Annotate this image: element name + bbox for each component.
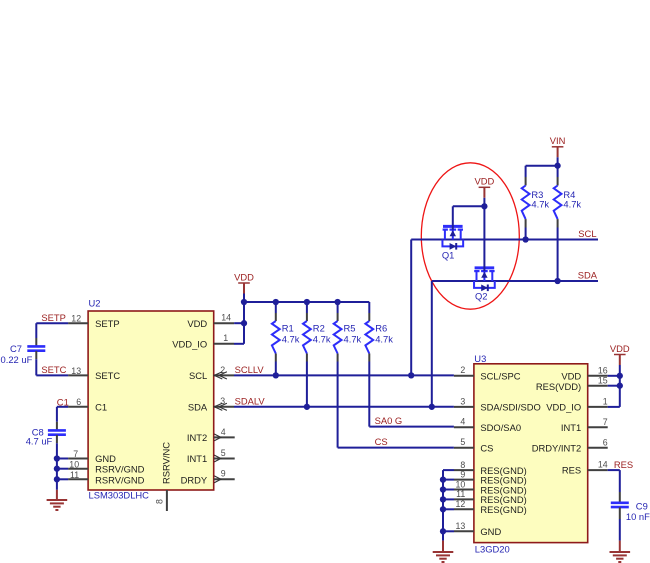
wire R4 bottom to SDA (557, 228, 559, 282)
svg-text:GND: GND (95, 453, 116, 464)
svg-text:SCL: SCL (189, 370, 207, 381)
svg-text:LSM303DLHC: LSM303DLHC (89, 490, 150, 501)
svg-text:11: 11 (70, 470, 79, 480)
IC U3 L3GD20 body (474, 364, 588, 543)
svg-text:SDA: SDA (188, 401, 208, 412)
U2 pin 13 stub (68, 374, 88, 376)
junction VDD stem to bus (241, 299, 247, 305)
svg-text:SCLLV: SCLLV (235, 364, 265, 375)
capacitor C9 (611, 501, 629, 504)
svg-text:5: 5 (221, 448, 226, 458)
svg-text:9: 9 (460, 469, 465, 479)
U3 pin 16 stub (588, 375, 608, 377)
U3 pin 6 stub (588, 447, 608, 449)
resistor R3 bottom lead (525, 219, 527, 227)
wire VDD to U2 pin 14 (234, 322, 244, 324)
wire VDD stem down to pin14 (243, 302, 245, 323)
transistor Q2 (475, 266, 495, 269)
U2 pin 2 bidirectional arrow (214, 372, 222, 379)
junction pin11 (54, 476, 60, 482)
U2 pin 2 stub (214, 374, 234, 376)
U2 pin 7 stub (68, 458, 88, 460)
svg-text:CS: CS (375, 436, 388, 447)
svg-text:10: 10 (456, 479, 466, 489)
svg-text:RSRV/NC: RSRV/NC (161, 442, 172, 484)
wire GND pin 7 connection (57, 458, 68, 460)
junction R5 top on bus (334, 299, 340, 305)
svg-text:5: 5 (460, 437, 465, 447)
svg-text:VDD_IO: VDD_IO (172, 338, 207, 349)
svg-text:RSRV/GND: RSRV/GND (95, 464, 145, 475)
svg-text:SCL/SPC: SCL/SPC (480, 370, 520, 381)
svg-text:SETP: SETP (41, 312, 66, 323)
junction R4 SDA (554, 278, 560, 284)
svg-text:SETC: SETC (95, 370, 120, 381)
wire C1 net (57, 406, 68, 408)
svg-text:VDD: VDD (234, 271, 254, 282)
wire SDALV net (234, 406, 454, 408)
svg-text:R1: R1 (282, 323, 294, 334)
svg-text:SA0 G: SA0 G (375, 415, 403, 426)
svg-text:4.7 uF: 4.7 uF (26, 436, 53, 447)
wire VDD down pin15 (619, 376, 621, 386)
svg-text:4.7k: 4.7k (375, 333, 393, 344)
wire RES(GND) stub connection (443, 530, 454, 532)
wire RSRV pin 11 connection (57, 478, 68, 480)
resistor R5 top lead (337, 302, 339, 313)
resistor R6 top lead (368, 302, 370, 313)
svg-text:DRDY/INT2: DRDY/INT2 (532, 442, 581, 453)
transistor Q1 (443, 225, 463, 228)
wire RES(GND) stub connection (443, 498, 454, 500)
resistor R2 (303, 321, 311, 354)
U3 pin 5 stub (454, 447, 474, 449)
svg-text:RES(GND): RES(GND) (480, 504, 526, 515)
wire C8 to GND pins (56, 443, 58, 490)
svg-text:SCL: SCL (578, 228, 596, 239)
junction VIN to R3 R4 (554, 163, 560, 169)
junction VDD pin15 (617, 383, 623, 389)
svg-text:C1: C1 (95, 401, 107, 412)
junction VDD gates (481, 203, 487, 209)
wire VDD down to pin1 elbow (619, 386, 621, 407)
wire VDD to Q2 gate (483, 206, 485, 271)
svg-text:8: 8 (155, 499, 165, 504)
svg-text:SETP: SETP (95, 318, 120, 329)
svg-text:C7: C7 (10, 343, 22, 354)
svg-text:R6: R6 (375, 323, 387, 334)
U2 pin 5 output arrow (214, 455, 221, 462)
wire RES(GND) stub connection (443, 469, 454, 471)
ground symbol under RES bus (433, 551, 454, 553)
svg-text:14: 14 (598, 460, 608, 470)
U2 pin 5 stub (214, 458, 235, 460)
svg-text:4.7k: 4.7k (282, 333, 300, 344)
wire RES(GND) stub connection (443, 508, 454, 510)
ground stem under RES bus (442, 541, 444, 552)
wire RSRV pin 10 connection (57, 468, 68, 470)
svg-text:6: 6 (603, 437, 608, 447)
svg-text:SDO/SA0: SDO/SA0 (480, 422, 521, 433)
svg-text:10 nF: 10 nF (626, 511, 650, 522)
svg-text:SDA: SDA (578, 270, 598, 281)
svg-text:U3: U3 (474, 353, 486, 364)
U2 pin 9 output arrow (214, 476, 221, 483)
svg-text:DRDY: DRDY (181, 475, 208, 486)
svg-text:4.7k: 4.7k (531, 199, 549, 210)
junction RES(GND) bus (440, 486, 446, 492)
ground stem under U2 (56, 490, 58, 500)
svg-text:16: 16 (598, 365, 608, 375)
wire RES(GND) stub connection (443, 479, 454, 481)
svg-text:INT1: INT1 (561, 422, 581, 433)
resistor R1 top lead (275, 302, 277, 313)
resistor R6 bottom lead (368, 354, 370, 362)
resistor R3 (522, 186, 530, 220)
U3 pin 2 stub (454, 375, 474, 377)
wire RES(GND) stub connection (443, 489, 454, 491)
junction RES(GND) bus (440, 528, 446, 534)
svg-text:13: 13 (456, 521, 466, 531)
U3 pin 7 stub (588, 426, 608, 428)
U2 pin 8 stub bottom (166, 490, 168, 511)
U2 pin 4 stub (214, 436, 235, 438)
svg-text:8: 8 (460, 460, 465, 470)
wire R5 bottom to CS elbow (337, 362, 339, 448)
wire SETC net (35, 359, 37, 375)
svg-text:INT1: INT1 (187, 453, 207, 464)
svg-text:R5: R5 (344, 323, 356, 334)
junction RES(GND) bus (440, 506, 446, 512)
junction R3 SCL (522, 236, 528, 242)
U3 pin 8 stub (454, 469, 474, 471)
U2 pin 14 stub (214, 322, 234, 324)
ground symbol under U2 (47, 499, 68, 501)
resistor R4 bottom lead (557, 219, 559, 227)
red ellipse highlight around level shifters Q1 Q2 (421, 163, 519, 309)
capacitor C8 bottom lead (56, 435, 58, 443)
U3 pin 13 stub (454, 530, 474, 532)
U3 pin 12 stub (454, 508, 474, 510)
U3 pin 10 stub (454, 489, 474, 491)
junction R1 SCLLV (273, 372, 279, 378)
junction RES(GND) bus (440, 496, 446, 502)
ground symbol under C9 (610, 551, 631, 553)
U3 pin 11 stub (454, 498, 474, 500)
junction RES(GND) bus (440, 476, 446, 482)
U3 pin 15 stub (588, 385, 608, 387)
wire Q1 source down to SCLLV (410, 240, 412, 376)
svg-text:R2: R2 (313, 323, 325, 334)
wire VDD to U3 pin1 (608, 406, 620, 408)
wire VDD to U3 pin15 (608, 385, 620, 387)
svg-text:RES(VDD): RES(VDD) (536, 381, 581, 392)
svg-text:13: 13 (71, 366, 81, 376)
svg-text:4: 4 (221, 427, 226, 437)
U3 pin 1 stub (588, 406, 608, 408)
capacitor C9 bottom lead (619, 507, 621, 519)
svg-text:11: 11 (456, 489, 465, 499)
svg-text:VDD: VDD (610, 343, 630, 354)
capacitor C9 top lead (619, 492, 621, 503)
svg-text:VDD: VDD (561, 370, 581, 381)
svg-text:4.7k: 4.7k (313, 333, 331, 344)
wire VDD to Q1 gate (453, 205, 485, 207)
resistor R6 (365, 321, 373, 354)
svg-text:SETC: SETC (41, 364, 66, 375)
U3 pin 14 stub (588, 469, 608, 471)
wire RES(GND) bus vertical (442, 470, 444, 540)
junction pin10 (54, 466, 60, 472)
U3 pin 3 stub (454, 406, 474, 408)
wire SCLLV net (234, 374, 454, 376)
svg-text:L3GD20: L3GD20 (475, 544, 510, 555)
svg-text:VDD: VDD (187, 318, 207, 329)
svg-text:VDD_IO: VDD_IO (546, 402, 581, 413)
svg-text:7: 7 (603, 417, 608, 427)
U2 pin 9 stub (214, 478, 235, 480)
wire R3 bottom to SCL (525, 228, 527, 240)
svg-text:6: 6 (76, 397, 81, 407)
svg-text:VDD: VDD (475, 176, 495, 187)
wire RES pin14 to C9 (608, 469, 620, 471)
wire SA0_G horizontal to U3 pin 4 (369, 426, 454, 428)
svg-text:RES: RES (614, 459, 633, 470)
capacitor C8 (48, 429, 66, 432)
wire CS horizontal to U3 pin 5 (338, 447, 454, 449)
junction R2 top on bus (304, 299, 310, 305)
resistor R3 top lead (525, 177, 527, 186)
resistor R5 bottom lead (337, 354, 339, 362)
capacitor C7 top lead (35, 338, 37, 346)
wire SCL horizontal through Q1 (411, 239, 598, 241)
wire R4 top lead from VIN (557, 166, 559, 177)
U2 pin 4 output arrow (214, 434, 221, 441)
U2 pin 10 stub (68, 468, 88, 470)
resistor R2 top lead (306, 302, 308, 313)
svg-text:INT2: INT2 (187, 432, 207, 443)
resistor R2 bottom lead (306, 354, 308, 362)
U2 pin 6 stub (68, 406, 88, 408)
junction VDD pin14 tee (241, 320, 247, 326)
junction Q2 source SDALV (429, 404, 435, 410)
svg-text:GND: GND (480, 526, 501, 537)
junction Q1 source SCLLV (408, 372, 414, 378)
U3 pin 4 stub (454, 426, 474, 428)
wire VDD bus over pullup resistors (244, 301, 369, 303)
svg-text:1: 1 (603, 397, 608, 407)
svg-text:14: 14 (221, 313, 231, 323)
U2 pin 11 stub (68, 478, 88, 480)
svg-text:4.7k: 4.7k (563, 199, 581, 210)
resistor R4 (554, 186, 562, 220)
svg-text:SDA/SDI/SDO: SDA/SDI/SDO (480, 402, 540, 413)
wire SETP net (36, 322, 68, 324)
svg-text:RSRV/GND: RSRV/GND (95, 475, 145, 486)
svg-text:12: 12 (71, 314, 81, 324)
svg-text:4.7k: 4.7k (344, 333, 362, 344)
svg-text:C9: C9 (636, 500, 648, 511)
svg-text:Q1: Q1 (442, 250, 455, 261)
junction GND pin7 (54, 455, 60, 461)
svg-text:SDALV: SDALV (235, 396, 266, 407)
U2 pin 1 stub (214, 343, 234, 345)
U2 pin 12 stub (68, 322, 88, 324)
svg-text:9: 9 (221, 469, 226, 479)
U2 pin 3 bidirectional arrow (214, 403, 222, 410)
svg-text:VIN: VIN (550, 135, 566, 146)
svg-text:Q2: Q2 (475, 290, 488, 301)
junction R1 top on bus (273, 299, 279, 305)
wire C9 to ground (619, 519, 621, 541)
svg-text:0.22 uF: 0.22 uF (1, 354, 33, 365)
U2 pin 3 stub (214, 406, 234, 408)
capacitor C7 bottom lead (35, 351, 37, 359)
wire Q2 source down to SDALV (431, 281, 433, 407)
svg-text:2: 2 (460, 365, 465, 375)
svg-text:U2: U2 (89, 298, 101, 309)
wire R1 bottom to SCLLV (275, 362, 277, 376)
svg-text:10: 10 (69, 460, 79, 470)
ground stem under C9 (619, 541, 621, 552)
resistor R5 (334, 321, 342, 354)
capacitor C7 (27, 345, 45, 348)
wire R6 bottom to SA0_G elbow (368, 362, 370, 427)
resistor R1 (272, 321, 280, 354)
IC U2 LSM303DLHC body (88, 311, 214, 490)
svg-text:CS: CS (480, 442, 493, 453)
junction VDD pin16 (617, 373, 623, 379)
capacitor C8 top lead (56, 422, 58, 431)
junction R2 SDALV (304, 404, 310, 410)
svg-text:1: 1 (223, 333, 228, 343)
wire VDD_IO to U2 pin 1 (234, 343, 244, 345)
wire VDD to U3 pin16 (608, 375, 620, 377)
wire VIN to R3 top elbow (526, 165, 558, 167)
svg-text:4: 4 (460, 417, 465, 427)
svg-text:7: 7 (73, 449, 78, 459)
svg-text:12: 12 (456, 499, 466, 509)
svg-text:3: 3 (460, 396, 465, 406)
wire VDD down to pin 1 elbow (243, 323, 245, 344)
U3 pin 9 stub (454, 479, 474, 481)
svg-text:15: 15 (598, 375, 608, 385)
svg-text:RES: RES (562, 465, 581, 476)
wire SDA horizontal through Q2 (432, 280, 598, 282)
wire R2 bottom to SDALV (306, 362, 308, 407)
resistor R1 bottom lead (275, 354, 277, 362)
